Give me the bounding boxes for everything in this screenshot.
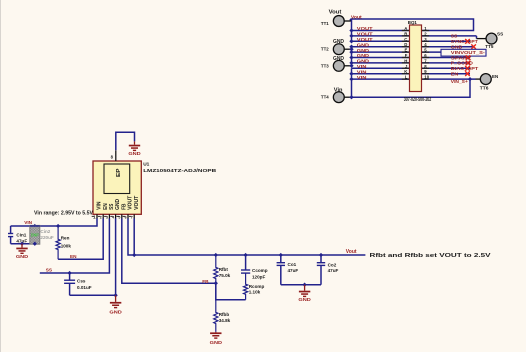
svg-text:EP: EP <box>116 168 122 177</box>
svg-text:SS: SS <box>497 32 503 37</box>
svg-text:F: F <box>405 53 408 58</box>
pin letter A <box>404 26 407 31</box>
svg-text:BQ1: BQ1 <box>408 20 418 25</box>
svg-text:EN: EN <box>103 203 109 210</box>
wire GND pin4 stub <box>422 46 475 48</box>
capacitor Co2 <box>317 255 325 285</box>
net label GND row E <box>357 48 370 53</box>
node Vout net label (rail) <box>346 249 357 255</box>
pin letter E <box>405 48 408 53</box>
node VIN net label <box>24 220 32 225</box>
connector left pin leg F <box>402 57 410 59</box>
junction TT3 at GND bus <box>349 64 353 68</box>
wire VOUT rail <box>128 218 365 255</box>
label Rfbt <box>219 267 229 272</box>
ground output GND symbol <box>298 285 311 304</box>
junction TT2 at GND bus <box>349 47 353 51</box>
svg-text:VIN: VIN <box>357 64 367 69</box>
svg-text:Rfbt: Rfbt <box>219 267 229 272</box>
node Vout net label (top) <box>351 15 362 21</box>
connector left pin leg J <box>402 67 410 69</box>
wire VIN pin J <box>352 67 410 69</box>
pin number 4 <box>424 42 427 47</box>
junction VOUT bus row B <box>349 34 353 38</box>
label SS (TT5) <box>497 32 503 37</box>
svg-text:DNP: DNP <box>31 233 39 238</box>
svg-text:VOUT: VOUT <box>357 37 373 42</box>
no-connect X pin 6 <box>466 55 471 60</box>
test point TT4 <box>333 92 344 103</box>
pin letter J <box>405 64 408 69</box>
connector left pin leg E <box>402 51 410 53</box>
wire Css to GND / U1 pin4 GND <box>70 218 116 295</box>
svg-text:EN: EN <box>451 72 459 77</box>
connector BQ1 body <box>410 25 422 92</box>
U1 pin 7 stub <box>133 214 135 219</box>
net label P_GOOD pin 7 <box>451 61 474 66</box>
svg-text:100k: 100k <box>61 243 72 248</box>
svg-text:GND: GND <box>333 39 344 45</box>
connector right pin leg 7 <box>422 62 430 64</box>
svg-text:FB: FB <box>202 279 209 284</box>
connector left pin leg C <box>402 40 410 42</box>
label connector part number 307-020-500-202 <box>404 97 432 103</box>
capacitor Cin2 (DNP) <box>30 225 40 245</box>
label Rfbb <box>219 312 230 317</box>
junction TT4 at VIN bus <box>349 95 353 99</box>
capacitor Co1 <box>277 255 285 285</box>
U1 pin label FB <box>121 203 127 210</box>
pin letter B <box>404 31 407 36</box>
svg-text:SS: SS <box>46 268 52 273</box>
U1 pin 2 stub <box>102 214 104 219</box>
svg-text:GND: GND <box>357 59 370 64</box>
svg-text:VIN_S+: VIN_S+ <box>451 79 468 84</box>
test point TT6 stub <box>476 78 481 80</box>
wire Vout net: TT1 to connector pin 1 loop <box>350 19 473 31</box>
net label VINVOUT_S- pin 5 <box>451 50 486 55</box>
label EP <box>116 168 122 177</box>
test point TT5 <box>486 33 497 44</box>
label Rfbb value 34.8k <box>219 318 231 323</box>
test point TT6 <box>480 74 491 85</box>
svg-text:10: 10 <box>424 75 429 80</box>
label GND (TT3) <box>333 56 344 62</box>
junction Cin2 top <box>33 224 37 228</box>
test point TT4 stub <box>344 96 351 98</box>
connector right pin leg 8 <box>422 67 430 69</box>
ground Css GND symbol <box>109 295 122 315</box>
label TT1 <box>321 21 329 27</box>
junction Ren top <box>56 224 60 228</box>
label TT5 <box>485 44 494 50</box>
connector right pin leg 2 <box>422 35 430 37</box>
connector left pin leg L <box>402 78 410 80</box>
svg-text:L: L <box>405 75 408 80</box>
test point TT3 stub <box>344 65 351 67</box>
ground Rfbb GND symbol <box>210 332 223 346</box>
wire SYNC_OPT stub <box>422 40 471 42</box>
label Css value 0.01uF <box>77 285 92 290</box>
label Ccomp value 120pF <box>252 274 265 279</box>
label Co1 value 47uF <box>288 268 299 273</box>
pin number 3 <box>424 37 427 42</box>
pin letter D <box>404 42 407 47</box>
pin letter K <box>404 69 408 74</box>
label TT2 <box>321 47 329 53</box>
svg-text:SS: SS <box>451 34 457 39</box>
capacitor Css <box>64 273 75 295</box>
wire VIN pin L <box>352 78 410 80</box>
resistor Ren <box>56 226 60 259</box>
svg-text:EN: EN <box>70 254 77 259</box>
junction Ccomp top <box>243 253 247 257</box>
U1 pin label VIN <box>97 201 103 210</box>
pin number 1 <box>424 26 427 31</box>
wire VOUT pin A <box>352 30 410 32</box>
pin number 10 <box>424 75 429 80</box>
pin number 2 <box>424 31 427 36</box>
svg-text:GND: GND <box>16 254 29 260</box>
wire EN stub <box>422 73 471 75</box>
pin letter L <box>405 75 408 80</box>
U1 pin 4 stub <box>115 214 117 219</box>
connector right pin leg 4 <box>422 46 430 48</box>
svg-text:C: C <box>404 37 407 42</box>
svg-text:VIN: VIN <box>357 75 367 80</box>
svg-text:Rcomp: Rcomp <box>249 284 265 289</box>
junction output GND tap <box>302 283 306 287</box>
wire VOUT pin C <box>352 40 410 42</box>
svg-text:U1: U1 <box>143 162 149 168</box>
svg-text:VIN: VIN <box>24 220 32 225</box>
wire VIN pin K <box>352 73 410 75</box>
connector left pin leg A <box>402 30 410 32</box>
op-amp U1 body (LMZ10504 regulator) <box>93 161 141 214</box>
wire GND pin F <box>352 57 410 59</box>
svg-text:GND: GND <box>357 48 370 53</box>
svg-text:TT4: TT4 <box>321 95 329 101</box>
junction VOUT bus row A <box>349 28 353 32</box>
wire VOUT bus vertical <box>351 19 353 41</box>
U1 pin number 1 <box>92 215 96 220</box>
label TT4 <box>321 95 329 101</box>
net label VIN_S+ pin 10 <box>451 79 468 84</box>
no-connect X pin 4 <box>471 44 476 49</box>
net label GND pin 4 <box>451 45 463 50</box>
resistor Rcomp <box>244 274 248 300</box>
junction GND pin4 tap <box>113 293 117 297</box>
svg-text:SPARE: SPARE <box>451 55 472 60</box>
connector right pin leg 5 <box>422 51 430 53</box>
junction VIN bus row K <box>349 72 353 76</box>
label Cin1 <box>16 232 26 237</box>
svg-text:B: B <box>404 31 407 36</box>
connector left pin leg H <box>402 62 410 64</box>
no-connect X pin 7 <box>466 61 471 66</box>
svg-text:GND: GND <box>333 56 344 62</box>
junction VIN bus row L <box>349 77 353 81</box>
wire FB to Rcomp bottom <box>216 283 246 300</box>
svg-text:Rfbb: Rfbb <box>219 312 230 317</box>
svg-text:Vout: Vout <box>346 249 357 255</box>
wire output caps to GND <box>281 284 321 286</box>
net label GND row D <box>357 42 370 47</box>
svg-text:GND: GND <box>210 340 223 346</box>
junction GND bus row E <box>349 50 353 54</box>
U1 pin number 3 <box>104 216 108 220</box>
wire SS to TT5 <box>422 36 477 39</box>
U1 pin label VOUT <box>128 196 134 210</box>
svg-text:120pF: 120pF <box>252 274 265 279</box>
wire VIN net (pin1 to input caps) <box>11 218 97 226</box>
svg-text:TT1: TT1 <box>321 21 329 27</box>
svg-text:Co1: Co1 <box>288 262 297 267</box>
svg-text:P_GOOD: P_GOOD <box>451 61 474 66</box>
net label SS pin 2 <box>451 34 457 39</box>
label note Rfbt and Rfbb set VOUT <box>370 253 492 259</box>
svg-text:VOUT: VOUT <box>134 196 140 210</box>
U1 pin 3 stub <box>108 214 110 219</box>
net label VIN row L <box>357 75 367 80</box>
net label EN pin 9 <box>451 72 459 77</box>
svg-text:47uF: 47uF <box>288 268 299 273</box>
U1 pin label EN <box>103 203 109 210</box>
node SS net label <box>46 268 52 273</box>
U1 EP pad box <box>104 164 130 194</box>
net label SPARE pin 6 <box>451 55 472 60</box>
svg-text:SS: SS <box>109 203 115 210</box>
svg-text:GND: GND <box>109 310 122 316</box>
svg-text:GND: GND <box>357 42 370 47</box>
svg-text:SYNC_OPT: SYNC_OPT <box>451 39 478 44</box>
wire GND pin E <box>352 51 410 53</box>
connector left pin leg B <box>402 35 410 37</box>
node EN net label <box>70 254 77 259</box>
svg-text:FB: FB <box>121 203 127 210</box>
svg-text:VIN: VIN <box>357 69 367 74</box>
junction Co1 top <box>279 253 283 257</box>
capacitor Ccomp <box>241 255 250 274</box>
U1 pin number 7 <box>129 216 133 220</box>
label Ren <box>61 236 70 241</box>
wire FB net (U1 pin5 to divider) <box>122 218 216 283</box>
net label GND row H <box>357 59 370 64</box>
box VINVOUT_S- label frame <box>441 49 486 56</box>
svg-text:Co2: Co2 <box>328 262 337 267</box>
pin number 8 (EP pin) <box>111 154 114 159</box>
wire VIN_S+ to TT6 <box>422 78 476 80</box>
label Co2 value 47uF <box>328 268 339 273</box>
label Cin2 <box>40 229 50 234</box>
svg-text:BIAS_OPT: BIAS_OPT <box>451 66 479 71</box>
connector left pin leg K <box>402 73 410 75</box>
label Vin range note <box>34 210 94 216</box>
svg-text:Css: Css <box>77 279 86 284</box>
label Ren value 100k <box>61 243 72 248</box>
junction Co2 top <box>319 253 323 257</box>
U1 pin label SS <box>109 203 115 210</box>
svg-text:Ren: Ren <box>61 236 70 241</box>
svg-text:TT3: TT3 <box>321 63 329 69</box>
junction VIN_S+ loop tap <box>468 77 472 81</box>
ground EP GND symbol <box>128 141 141 157</box>
wire GND bus vertical <box>351 47 353 66</box>
net label SYNC_OPT pin 3 <box>451 39 478 44</box>
svg-text:Vout: Vout <box>351 15 362 21</box>
no-connect X pin 9 <box>465 71 470 76</box>
U1 pin number 6 <box>123 216 127 220</box>
svg-text:VOUT: VOUT <box>357 32 373 37</box>
svg-text:GND: GND <box>451 45 463 50</box>
capacitor Cin1 <box>8 226 35 244</box>
pin letter C <box>404 37 407 42</box>
test point TT1 stub <box>344 20 351 22</box>
svg-text:GND: GND <box>357 53 370 58</box>
pin number 9 <box>424 69 427 74</box>
svg-text:TT6: TT6 <box>480 85 489 91</box>
svg-text:VIN: VIN <box>97 201 103 210</box>
wire BIAS_OPT stub <box>422 67 471 69</box>
no-connect X pin 3 <box>465 39 470 44</box>
svg-text:EN: EN <box>492 74 499 79</box>
pin number 6 <box>424 53 427 58</box>
svg-text:Vin range: 2.95V to 5.5V: Vin range: 2.95V to 5.5V <box>34 210 94 216</box>
pin number 5 <box>424 48 427 53</box>
svg-text:H: H <box>404 58 407 63</box>
pin letter F <box>405 53 408 58</box>
svg-text:VOUT: VOUT <box>357 26 373 31</box>
junction VOUT bus row C <box>349 39 353 43</box>
svg-text:E: E <box>405 48 408 53</box>
wire VINVOUT_S- stub <box>422 51 442 53</box>
svg-text:D: D <box>404 42 407 47</box>
pin number 7 <box>424 58 427 63</box>
svg-text:Vout: Vout <box>329 10 342 16</box>
connector right pin leg 6 <box>422 57 430 59</box>
no-connect X pin 8 <box>465 66 470 71</box>
net label VOUT row A <box>357 26 373 31</box>
wire VIN bus vertical <box>351 68 353 97</box>
connector right pin leg 3 <box>422 40 430 42</box>
svg-text:0.01uF: 0.01uF <box>77 285 92 290</box>
svg-text:VOUT: VOUT <box>128 196 134 210</box>
connector right pin leg 10 <box>422 78 430 80</box>
label Vin (TT4) <box>334 88 343 94</box>
net label VOUT row C <box>357 37 373 42</box>
wire GND pin D <box>352 46 410 48</box>
U1 pin number 2 <box>98 216 102 220</box>
junction GND bus row H <box>349 61 353 65</box>
svg-text:TT2: TT2 <box>321 47 329 53</box>
svg-text:47uF: 47uF <box>328 268 339 273</box>
test point TT5 stub <box>477 38 487 40</box>
svg-text:34.8k: 34.8k <box>219 318 231 323</box>
svg-text:1.10k: 1.10k <box>249 290 261 295</box>
junction Cin GND tap <box>20 242 24 246</box>
canvas left edge <box>0 0 1 352</box>
wire VIN_S+ bottom loop <box>352 79 471 97</box>
svg-text:GND: GND <box>115 199 121 210</box>
svg-text:Cin1: Cin1 <box>16 232 26 237</box>
junction Css top <box>67 271 71 275</box>
wire U1 EP pin to GND <box>116 132 135 161</box>
svg-text:Rfbt and Rfbb set VOUT to 2.5V: Rfbt and Rfbb set VOUT to 2.5V <box>370 253 492 259</box>
label GND (TT2) <box>333 39 344 45</box>
label Cin2 value 220uF <box>40 235 53 240</box>
net label GND row F <box>357 53 370 58</box>
svg-text:GND: GND <box>298 297 311 303</box>
U1 pin number 4 <box>110 216 114 220</box>
resistor Rfbb <box>214 283 218 332</box>
resistor Rfbt <box>214 255 218 283</box>
junction Rfbt top <box>214 253 218 257</box>
test point TT2 <box>333 44 344 55</box>
junction GND bus row F <box>349 55 353 59</box>
svg-text:Vin: Vin <box>334 88 343 94</box>
svg-text:307-020-500-202: 307-020-500-202 <box>404 97 432 103</box>
ground input GND symbol <box>16 244 29 260</box>
net label BIAS_OPT pin 8 <box>451 66 479 71</box>
label LMZ10504TZ-ADJ/NOPB <box>143 168 217 173</box>
wire SPARE stub <box>422 57 471 59</box>
net label VIN row K <box>357 69 367 74</box>
pin number 8 <box>424 64 427 69</box>
connector right pin leg 1 <box>422 30 430 32</box>
wire EN net (Ren to U1 pin2) <box>58 218 103 259</box>
net label VOUT row B <box>357 32 373 37</box>
U1 pin number 5 <box>117 216 121 220</box>
svg-text:75.0k: 75.0k <box>219 273 231 278</box>
U1 pin label VOUT <box>134 196 140 210</box>
node FB net label <box>202 279 209 284</box>
label Ccomp <box>252 268 268 273</box>
svg-text:VINVOUT_S-: VINVOUT_S- <box>451 50 486 55</box>
junction FB node <box>214 281 218 285</box>
net label VIN row J <box>357 64 367 69</box>
label Rfbt value 75.0k <box>219 273 231 278</box>
svg-text:GND: GND <box>128 151 141 157</box>
label Css <box>77 279 86 284</box>
svg-text:LMZ10504TZ-ADJ/NOPB: LMZ10504TZ-ADJ/NOPB <box>143 168 217 173</box>
pin letter H <box>404 58 407 63</box>
label BQ1 <box>408 20 418 25</box>
label Co1 <box>288 262 297 267</box>
svg-text:Cin2: Cin2 <box>40 229 50 234</box>
svg-text:220uF: 220uF <box>40 235 53 240</box>
label U1 <box>143 162 149 168</box>
svg-text:A: A <box>404 26 407 31</box>
connector left pin leg D <box>402 46 410 48</box>
label Vout (TT1) <box>329 10 342 16</box>
test point TT3 <box>333 60 344 71</box>
U1 pin label GND <box>115 199 121 210</box>
label Rcomp <box>249 284 265 289</box>
label TT3 <box>321 63 329 69</box>
test point TT2 stub <box>344 48 351 50</box>
label EN (TT6) <box>492 74 499 79</box>
U1 pin 5 stub <box>121 214 123 219</box>
svg-text:Ccomp: Ccomp <box>252 268 268 273</box>
label Cin1 value 47uF <box>16 238 27 243</box>
U1 pin 6 stub <box>127 214 129 219</box>
wire SS net (to U1 pin3) <box>40 218 110 273</box>
connector right pin leg 9 <box>422 73 430 75</box>
wire VOUT pin B <box>352 35 410 37</box>
junction VOUT pin7 <box>132 253 136 257</box>
wire P_GOOD stub <box>422 62 471 64</box>
label Rcomp value 1.10k <box>249 290 261 295</box>
